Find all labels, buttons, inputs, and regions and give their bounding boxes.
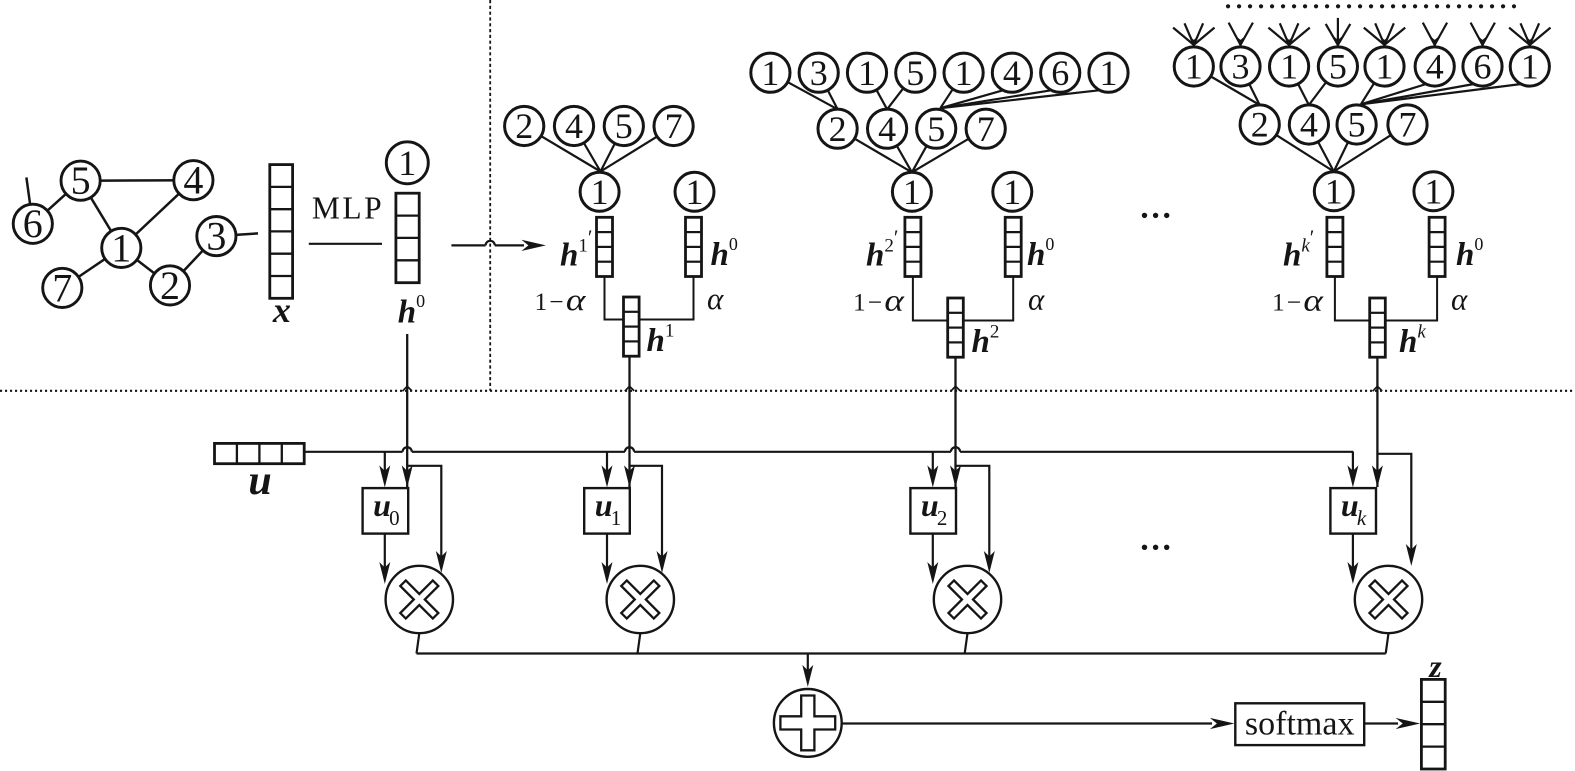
- tree3 edge t1c-5: [1361, 67, 1385, 105]
- svg-text:5: 5: [71, 158, 91, 203]
- ellipsis between times-2 and times-k: [1142, 545, 1170, 550]
- arrow from u bus into u1 box: [606, 452, 608, 482]
- vector h1prime: [597, 217, 613, 276]
- svg-text:hk′: hk′: [1283, 226, 1314, 274]
- arrow from sum bus into plus: [807, 654, 809, 682]
- svg-text:1: 1: [1280, 47, 1298, 87]
- branch wire from h wire to times-0: [407, 466, 441, 567]
- svg-text:x: x: [272, 290, 291, 330]
- crossing mark on h1 wire: [625, 386, 634, 391]
- output vector z: [1421, 679, 1445, 769]
- tree1 edge 4-1: [574, 126, 601, 172]
- arrow from u2 box into times-2: [932, 534, 934, 578]
- svg-text:1: 1: [858, 53, 876, 93]
- svg-text:1: 1: [1185, 47, 1203, 87]
- MLP mapping line: [309, 243, 382, 245]
- tree2 edge 4-1: [887, 129, 912, 173]
- graph edge 1-2: [121, 248, 170, 286]
- svg-text:1: 1: [111, 225, 131, 270]
- box u1: [584, 488, 630, 533]
- wire h0 down to u0 block: [406, 334, 408, 487]
- tree3 edge t3-2: [1241, 67, 1260, 106]
- hop of u bus over h wire: [951, 447, 960, 452]
- graph node 6: [13, 201, 52, 246]
- crossing mark on h0 wire: [403, 386, 412, 391]
- feature vector x: [270, 165, 293, 299]
- node 1 above h0: [386, 142, 428, 184]
- tree2 hop2 node 1: [751, 53, 790, 93]
- graph edge 5-1: [81, 181, 122, 248]
- svg-text:h0: h0: [398, 291, 425, 331]
- svg-text:5: 5: [1348, 105, 1366, 145]
- svg-text:z: z: [1428, 648, 1442, 684]
- svg-text:1 − α: 1 − α: [1272, 283, 1324, 318]
- tree2 hop2 node 6: [1041, 53, 1080, 93]
- svg-text:hk: hk: [1399, 322, 1426, 361]
- arrow from h wire into u0 box: [402, 465, 413, 487]
- svg-text:3: 3: [810, 53, 828, 93]
- tree3 hop-k node 5: [1318, 47, 1357, 87]
- incoming arrows above node 5 (k-hop): [1326, 18, 1351, 49]
- incoming arrows above node 1 (k-hop): [1509, 23, 1550, 48]
- wire hk down to uk block: [1376, 357, 1378, 487]
- vector h0: [396, 193, 419, 283]
- vector h2prime: [905, 217, 921, 276]
- tree3 edge t1d-5: [1361, 84, 1521, 104]
- tree3 hop-k node 1: [1365, 47, 1404, 87]
- wire times-2 down to sum bus: [965, 633, 968, 653]
- svg-text:h0: h0: [1456, 234, 1483, 273]
- tree2 edge t1d-5: [940, 90, 1100, 108]
- vector h0 small (tree1): [686, 217, 702, 276]
- tree3 edge t4-5: [1361, 84, 1426, 104]
- tree2 edge t3-2: [819, 73, 838, 110]
- tree2 hop2 node 3: [799, 53, 838, 93]
- svg-text:1: 1: [1376, 47, 1394, 87]
- arrow from h wire into u1 box: [624, 465, 635, 487]
- tree3 edge 7-1: [1334, 125, 1408, 172]
- vector h2: [948, 298, 964, 357]
- svg-text:h2′: h2′: [866, 226, 898, 274]
- hop of u bus over h wire: [625, 447, 634, 452]
- arrow from h0 into propagation section: [451, 244, 485, 246]
- svg-text:6: 6: [23, 201, 43, 246]
- box u2: [910, 488, 956, 533]
- svg-text:u: u: [248, 458, 271, 504]
- svg-text:MLP: MLP: [312, 191, 384, 226]
- svg-text:3: 3: [206, 214, 226, 259]
- graph edge 2-3: [170, 236, 216, 285]
- branch wire from h wire to times-2: [956, 466, 990, 567]
- branch wire from h wire to times-1: [630, 466, 663, 567]
- box softmax: [1235, 703, 1364, 745]
- tree1 neighbor node 4: [554, 106, 593, 146]
- svg-text:0: 0: [389, 506, 400, 530]
- box uk: [1330, 488, 1376, 533]
- arrow from uk box into times-k: [1352, 534, 1354, 578]
- svg-text:2: 2: [829, 109, 847, 149]
- svg-text:1: 1: [1521, 47, 1539, 87]
- graph stub edge from node 3: [216, 233, 258, 236]
- combine bracket left tree2: [913, 277, 948, 321]
- crossing mark on hk wire: [1373, 386, 1382, 391]
- vector h0 small (tree3): [1429, 217, 1445, 276]
- tree1 neighbor node 5: [604, 106, 643, 146]
- multiplier times-0: [386, 566, 453, 633]
- multiplier times-1: [607, 566, 674, 633]
- wire plus to softmax: [842, 722, 1212, 724]
- tree2 edge t1c-5: [940, 73, 963, 109]
- tree3 hop1 node 7: [1388, 105, 1427, 145]
- svg-text:7: 7: [977, 109, 995, 149]
- sum collection bus: [417, 652, 1386, 654]
- tree3 edge t5-4: [1309, 67, 1338, 106]
- graph edge 5-6: [33, 181, 81, 224]
- vector h1: [624, 297, 640, 356]
- graph node 7: [43, 265, 82, 310]
- tree2 edge t1b-4: [867, 73, 887, 110]
- svg-text:1: 1: [398, 143, 416, 183]
- tree2 edge t5-4: [887, 73, 915, 110]
- svg-text:k: k: [1357, 506, 1367, 530]
- svg-text:1: 1: [1325, 171, 1343, 211]
- adder plus: [774, 689, 842, 757]
- combine bracket left tree3: [1335, 277, 1370, 321]
- tree2 identity node 1: [993, 172, 1032, 212]
- tree1 edge 5-1: [601, 126, 624, 172]
- svg-text:1: 1: [1424, 171, 1442, 211]
- svg-text:1: 1: [591, 172, 609, 212]
- tree2 hop2 node 5: [896, 53, 935, 93]
- svg-text:4: 4: [1300, 105, 1318, 145]
- tree3 hop-k node 3: [1221, 47, 1260, 87]
- svg-text:1: 1: [955, 53, 973, 93]
- tree3 hop1 node 4: [1289, 105, 1328, 145]
- wire h1 down to u1 block: [628, 356, 630, 487]
- svg-text:4: 4: [565, 106, 583, 146]
- svg-text:5: 5: [615, 106, 633, 146]
- incoming arrows above node 1 (k-hop): [1364, 23, 1405, 48]
- arrow softmax to z: [1364, 722, 1398, 724]
- svg-text:6: 6: [1474, 47, 1492, 87]
- wire u horizontal bus: [304, 451, 1353, 453]
- svg-text:1: 1: [1100, 53, 1118, 93]
- svg-text:α: α: [707, 281, 724, 316]
- tree2 edge 7-1: [912, 129, 986, 173]
- svg-text:1: 1: [903, 172, 921, 212]
- tree2 hop2 node 1: [944, 53, 983, 93]
- svg-text:h0: h0: [711, 234, 738, 273]
- svg-text:4: 4: [1003, 53, 1021, 93]
- tree3 edge 5-1: [1334, 125, 1357, 172]
- svg-text:1 − α: 1 − α: [535, 282, 587, 317]
- svg-text:4: 4: [878, 109, 896, 149]
- tree2 hop2 node 4: [992, 53, 1031, 93]
- svg-text:7: 7: [665, 106, 683, 146]
- tree2 hop1 node 7: [966, 109, 1005, 149]
- tree2 aggregation node 1: [892, 172, 931, 212]
- tree3 hop-k node 6: [1463, 47, 1502, 87]
- svg-text:1: 1: [686, 172, 704, 212]
- combine bracket left (1-alpha path): [605, 277, 624, 320]
- svg-text:1: 1: [1003, 172, 1021, 212]
- vector u (row): [215, 443, 305, 463]
- tree2 edge 2-1: [838, 129, 912, 173]
- vector hkprime: [1327, 217, 1343, 276]
- tree3 edge t1b-4: [1289, 67, 1309, 106]
- combine bracket right (alpha path): [639, 277, 693, 320]
- incoming arrows above node 4 (k-hop): [1423, 23, 1447, 49]
- branch wire from hk wire to times-k: [1377, 454, 1411, 560]
- tree3 hop-k node 1: [1270, 47, 1309, 87]
- tree2 edge t1-2: [770, 73, 837, 110]
- graph node 3: [197, 214, 236, 259]
- combine bracket right tree2: [963, 277, 1013, 321]
- svg-text:2: 2: [937, 506, 948, 530]
- tree3 hop-k node 4: [1415, 47, 1454, 87]
- svg-text:4: 4: [183, 158, 203, 203]
- arrow from u0 box into times-0: [384, 534, 386, 578]
- hop of u bus over h wire: [403, 447, 412, 452]
- tree3 edge 4-1: [1309, 125, 1334, 172]
- dotted separator: vertical boundary line: [489, 0, 491, 391]
- svg-text:2: 2: [515, 106, 533, 146]
- arrow from h wire into u2 box: [950, 465, 961, 487]
- svg-text:5: 5: [1329, 47, 1347, 87]
- tree1 edge 7-1: [601, 126, 674, 171]
- tree3 edge 2-1: [1260, 125, 1334, 172]
- arrow from h wire into uk box: [1372, 465, 1383, 487]
- dotted line above k-hop tree: [1228, 4, 1514, 8]
- combine bracket right tree3: [1385, 277, 1437, 321]
- graph edge 5-4: [81, 179, 194, 182]
- tree3 edge t1-2: [1194, 67, 1260, 106]
- tree3 identity node 1: [1414, 171, 1453, 211]
- tree1 neighbor node 2: [505, 106, 544, 146]
- tree3 hop1 node 5: [1337, 105, 1376, 145]
- tree3 hop-k node 1: [1510, 47, 1549, 87]
- tree3 edge t6-5: [1361, 84, 1474, 104]
- tree2 hop2 node 1: [1089, 53, 1128, 93]
- incoming arrows above node 3 (k-hop): [1229, 23, 1253, 49]
- svg-text:1: 1: [611, 506, 622, 530]
- incoming arrows above node 1 (k-hop): [1173, 23, 1214, 48]
- svg-text:2: 2: [160, 263, 180, 308]
- graph edge 4-1: [121, 180, 193, 248]
- svg-text:5: 5: [906, 53, 924, 93]
- incoming arrows above node 6 (k-hop): [1471, 23, 1495, 49]
- tree2 edge t6-5: [940, 90, 1051, 108]
- tree1 neighbor node 7: [654, 106, 693, 146]
- ellipsis between hops: [1142, 213, 1170, 218]
- tree1 identity node 1: [675, 172, 714, 212]
- tree1 edge 2-1: [524, 126, 600, 172]
- graph stub edge from node 6: [26, 177, 32, 223]
- tree3 aggregation node 1: [1314, 171, 1353, 211]
- tree2 edge t4-5: [940, 90, 1003, 108]
- svg-text:h2: h2: [972, 322, 1000, 361]
- graph edge 1-7: [62, 248, 121, 288]
- svg-text:h1′: h1′: [560, 226, 592, 274]
- graph node 1: [102, 225, 141, 270]
- incoming arrows above node 1 (k-hop): [1268, 23, 1309, 48]
- vector hk: [1370, 298, 1386, 357]
- tree3 hop1 node 2: [1240, 105, 1279, 145]
- svg-text:5: 5: [927, 109, 945, 149]
- svg-text:2: 2: [1251, 105, 1269, 145]
- tree2 hop1 node 2: [818, 109, 857, 149]
- svg-text:softmax: softmax: [1245, 706, 1355, 743]
- tree2 hop1 node 5: [917, 109, 956, 149]
- graph node 2: [150, 263, 189, 308]
- svg-text:7: 7: [1399, 105, 1417, 145]
- vector h0 small (tree2): [1005, 217, 1021, 276]
- multiplier times-k: [1355, 566, 1422, 633]
- box u0: [363, 488, 409, 533]
- wire h2 down to u2 block: [954, 357, 956, 487]
- dotted separator: horizontal boundary line: [0, 390, 1575, 392]
- tree2 hop2 node 1: [847, 53, 886, 93]
- wire times-1 down to sum bus: [638, 633, 641, 653]
- arrow from u bus into uk box: [1352, 452, 1354, 482]
- crossing mark on h2 wire: [951, 386, 960, 391]
- svg-text:α: α: [1028, 282, 1045, 317]
- graph node 5: [61, 158, 100, 203]
- arrow from u1 box into times-1: [606, 534, 608, 578]
- tree2 edge 5-1: [912, 129, 936, 173]
- multiplier times-2: [934, 566, 1001, 633]
- graph node 4: [174, 158, 213, 203]
- wire times-k down to sum bus: [1386, 633, 1389, 653]
- svg-text:6: 6: [1051, 53, 1069, 93]
- svg-text:4: 4: [1426, 47, 1444, 87]
- wire times-0 down to sum bus: [417, 633, 420, 653]
- svg-text:7: 7: [52, 265, 72, 310]
- arrow from u bus into u2 box: [932, 452, 934, 482]
- svg-text:3: 3: [1232, 47, 1250, 87]
- tree1 aggregation node 1: [580, 172, 619, 212]
- tree2 hop1 node 4: [868, 109, 907, 149]
- svg-text:α: α: [1451, 282, 1468, 317]
- svg-text:1: 1: [761, 53, 779, 93]
- svg-text:1 − α: 1 − α: [853, 283, 905, 318]
- tree3 hop-k node 1: [1174, 47, 1213, 87]
- arrow from u bus into u0 box: [384, 452, 386, 482]
- svg-text:h1: h1: [647, 321, 675, 360]
- svg-text:h0: h0: [1027, 234, 1054, 273]
